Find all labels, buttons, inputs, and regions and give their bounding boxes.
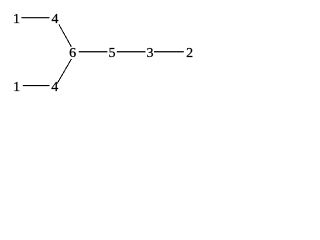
- svg-text:1: 1: [13, 12, 20, 27]
- svg-text:5: 5: [109, 46, 116, 61]
- svg-text:6: 6: [69, 46, 76, 61]
- wire 1-4 (bottom): [23, 85, 50, 87]
- svg-text:1: 1: [13, 80, 20, 95]
- wire 5-3: [117, 51, 146, 53]
- svg-text:2: 2: [186, 46, 193, 61]
- svg-text:4: 4: [51, 80, 58, 95]
- svg-text:3: 3: [147, 46, 154, 61]
- wire 4-6 (upper diagonal): [59, 24, 72, 47]
- wire 3-2: [154, 51, 184, 53]
- wire 4-6 (lower diagonal): [57, 59, 71, 84]
- wire 6-5: [79, 51, 108, 53]
- wire 1-4 (top): [21, 17, 49, 19]
- svg-text:4: 4: [52, 12, 59, 27]
